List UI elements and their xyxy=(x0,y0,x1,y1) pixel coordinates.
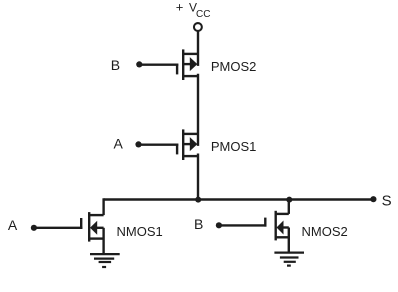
svg-text:B: B xyxy=(194,216,203,232)
svg-text:NMOS2: NMOS2 xyxy=(302,224,348,239)
svg-text:B: B xyxy=(111,57,120,73)
svg-text:NMOS1: NMOS1 xyxy=(117,224,163,239)
svg-text:A: A xyxy=(114,136,124,152)
svg-text:A: A xyxy=(8,217,18,233)
svg-text:PMOS2: PMOS2 xyxy=(211,59,257,74)
svg-text:PMOS1: PMOS1 xyxy=(211,139,257,154)
svg-text:CC: CC xyxy=(196,9,210,20)
svg-text:S: S xyxy=(382,193,392,210)
svg-text:+: + xyxy=(176,0,184,15)
